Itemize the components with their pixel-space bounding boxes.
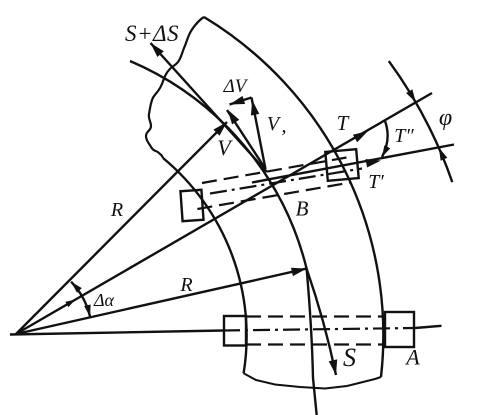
svg-text:S+ΔS: S+ΔS (125, 21, 179, 46)
svg-text:T′: T′ (368, 171, 384, 193)
svg-text:R: R (110, 199, 123, 221)
svg-text:φ: φ (439, 105, 452, 131)
svg-text:T″: T″ (394, 125, 414, 147)
svg-text:A: A (404, 345, 420, 370)
svg-text:V: V (217, 135, 233, 160)
svg-text:ΔV: ΔV (223, 76, 249, 97)
svg-text:T: T (337, 111, 350, 135)
svg-text:Δα: Δα (93, 290, 115, 310)
svg-text:V: V (267, 113, 282, 135)
svg-text:B: B (296, 197, 309, 221)
svg-text:,: , (282, 115, 287, 137)
svg-text:S: S (343, 343, 356, 372)
svg-text:R: R (179, 274, 192, 296)
